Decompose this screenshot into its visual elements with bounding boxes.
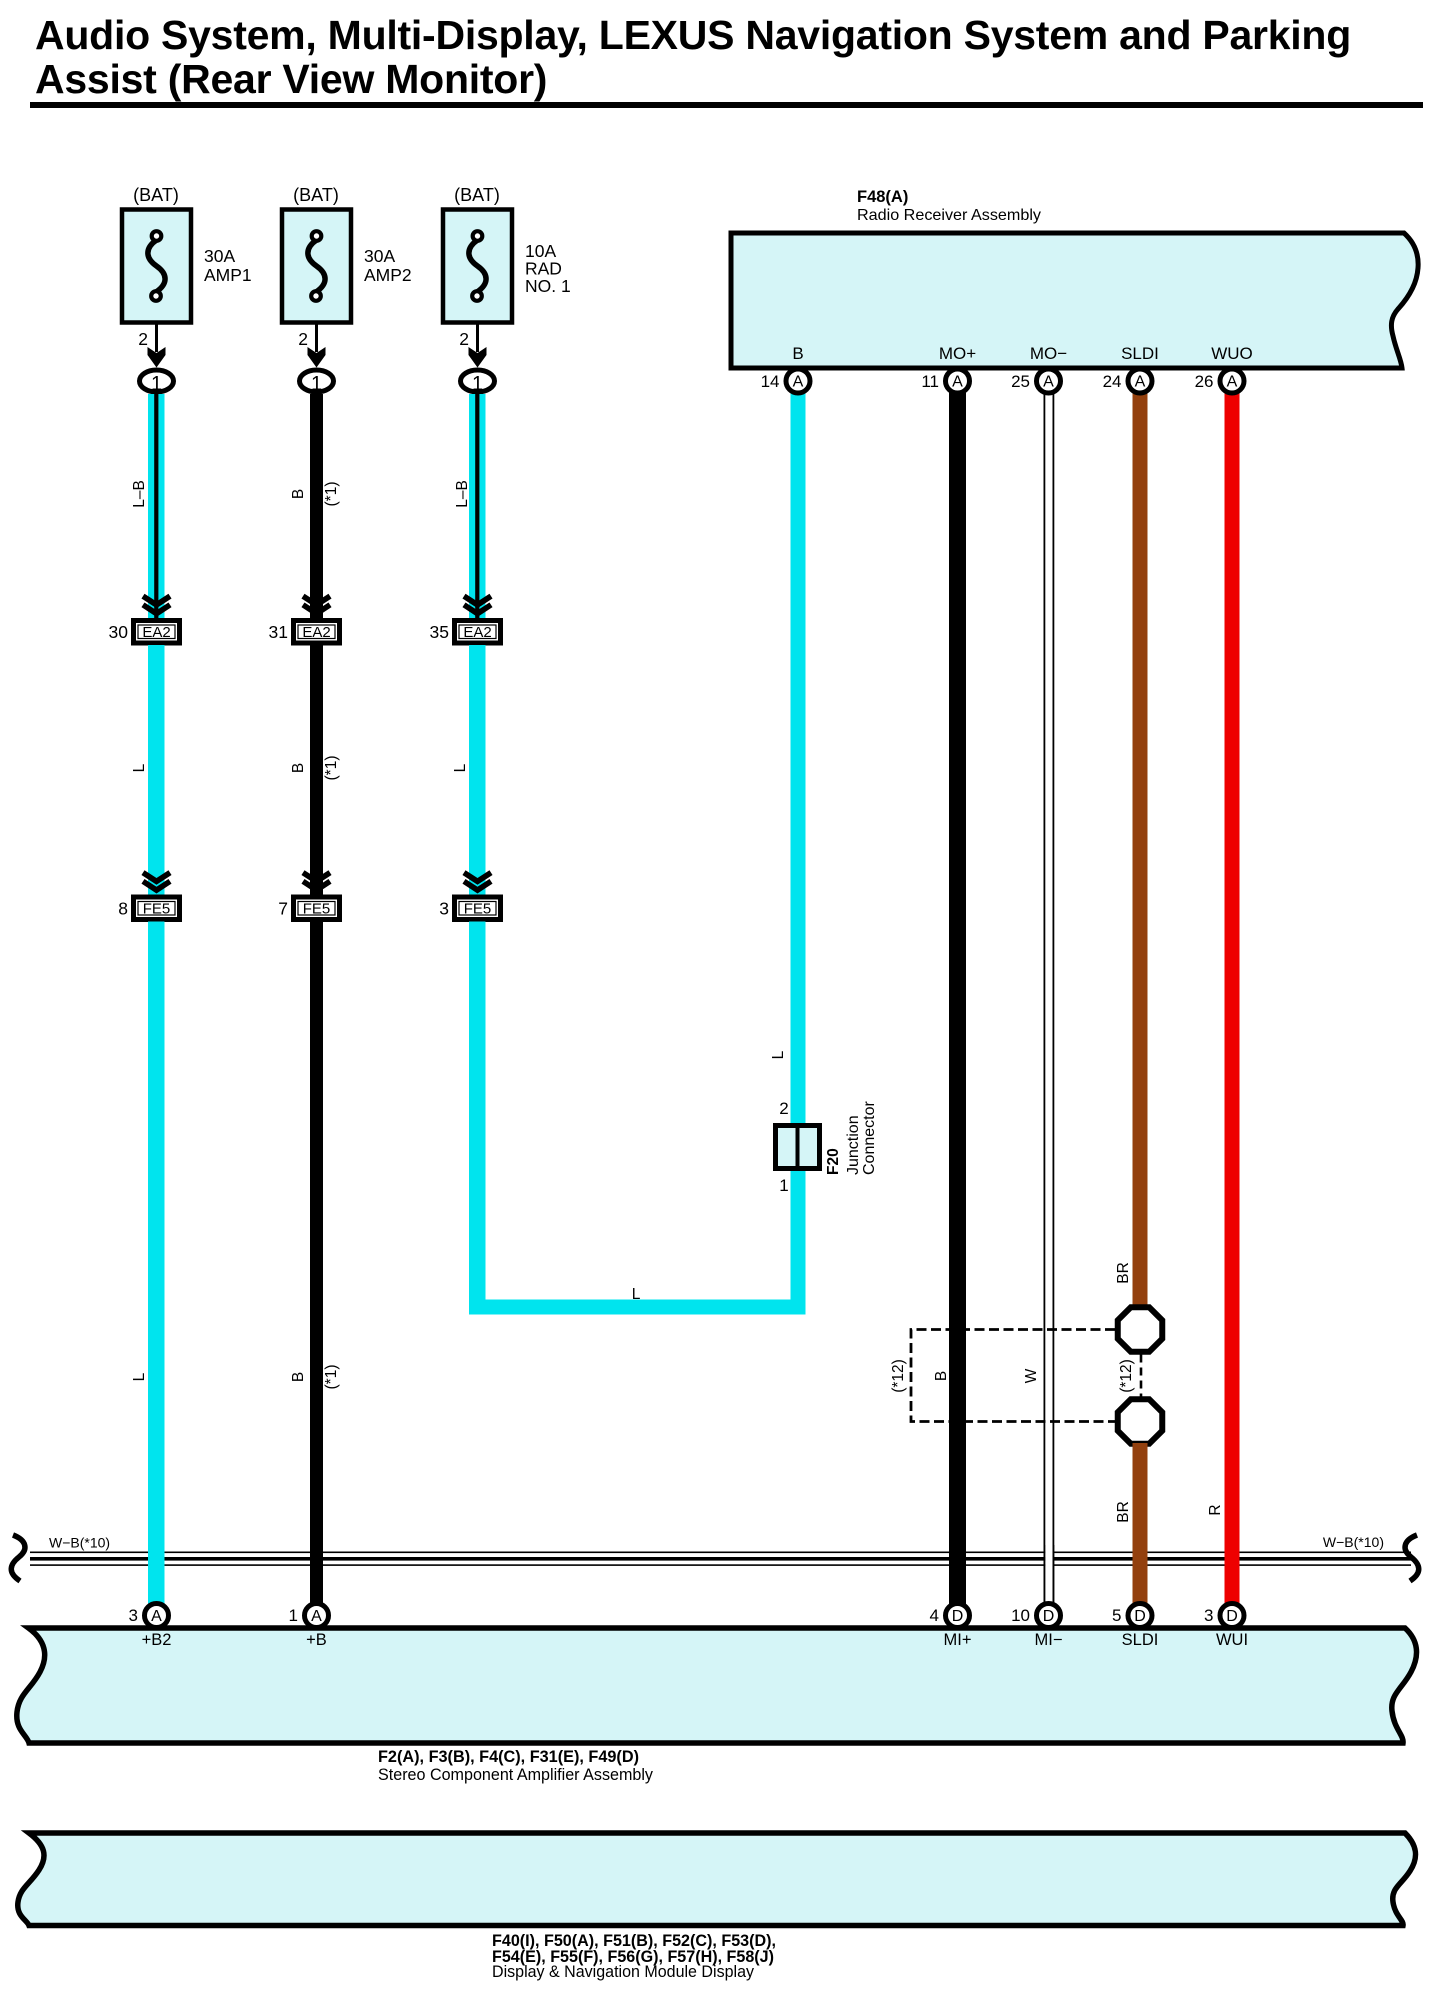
svg-text:(*1): (*1) [323, 482, 340, 507]
amplifier pin circle 10 D (MI-) [1037, 1604, 1061, 1628]
svg-text:Display & Navigation Module Di: Display & Navigation Module Display [492, 1963, 755, 1981]
svg-text:(*1): (*1) [323, 756, 340, 781]
radio receiver assembly F48(A) box [731, 233, 1418, 368]
svg-text:A: A [1135, 374, 1146, 391]
svg-text:4: 4 [930, 1606, 939, 1625]
svg-text:30A: 30A [204, 246, 235, 266]
svg-text:2: 2 [459, 329, 469, 349]
svg-text:25: 25 [1011, 372, 1030, 391]
svg-text:14: 14 [761, 372, 780, 391]
junction connector F20 [776, 1126, 820, 1169]
connector chevrons FE5 col1 [143, 873, 170, 882]
svg-text:D: D [952, 1608, 964, 1625]
svg-text:SLDI: SLDI [1121, 344, 1159, 363]
oval terminal 1 col3 [461, 370, 495, 392]
svg-text:1: 1 [289, 1606, 298, 1625]
wire L col1 crossing bus [148, 1545, 165, 1603]
title [35, 12, 1351, 102]
fuse AMP2 box [282, 210, 351, 323]
wire L from radio B down to elbow [791, 392, 806, 1315]
fuse RAD NO.1 symbol [469, 240, 486, 292]
svg-text:26: 26 [1195, 372, 1214, 391]
bus break squiggle left [11, 1535, 25, 1581]
svg-text:AMP1: AMP1 [204, 265, 252, 285]
svg-text:(BAT): (BAT) [293, 185, 339, 205]
svg-text:5: 5 [1112, 1606, 1121, 1625]
connector FE5 pin 8 [134, 897, 180, 920]
wire L col1 [148, 645, 165, 895]
svg-text:Audio System, Multi-Display, L: Audio System, Multi-Display, LEXUS Navig… [35, 12, 1351, 58]
svg-text:B: B [290, 763, 307, 773]
svg-text:Connector: Connector [861, 1101, 878, 1175]
display &amp; navigation module display box [18, 1833, 1416, 1926]
svg-text:L–B: L–B [131, 480, 148, 508]
svg-text:A: A [1043, 374, 1054, 391]
svg-text:2: 2 [138, 329, 148, 349]
svg-text:(BAT): (BAT) [133, 185, 179, 205]
shield octagon upper [1118, 1307, 1163, 1352]
wire B col2 crossing bus [310, 1545, 323, 1603]
svg-text:SLDI: SLDI [1122, 1631, 1159, 1649]
svg-text:MO+: MO+ [939, 344, 976, 363]
svg-text:MI+: MI+ [944, 1631, 972, 1649]
svg-text:R: R [1207, 1504, 1224, 1515]
wire B col2 to amplifier [310, 922, 323, 1604]
wire B col2 [310, 394, 323, 618]
fuse AMP1 box [122, 210, 191, 323]
wire R WUI crossing bus [1225, 1545, 1240, 1603]
svg-text:(*1): (*1) [323, 1365, 340, 1390]
svg-text:EA2: EA2 [463, 624, 491, 641]
svg-text:+B: +B [306, 1631, 327, 1649]
svg-text:10: 10 [1011, 1606, 1030, 1625]
wire L col3 mid [469, 645, 486, 895]
svg-text:3: 3 [129, 1606, 138, 1625]
svg-text:FE5: FE5 [464, 901, 492, 918]
svg-text:F2(A), F3(B), F4(C), F31(E), F: F2(A), F3(B), F4(C), F31(E), F49(D) [378, 1747, 639, 1766]
connector FE5 pin 7 [294, 897, 340, 920]
radio pin circle 11 A (MO+) [946, 369, 970, 393]
svg-text:1: 1 [151, 373, 162, 395]
svg-text:3: 3 [1204, 1606, 1213, 1625]
connector EA2 pin 35 [455, 621, 501, 644]
wire BR radio SLDI upper [1133, 392, 1148, 1306]
svg-text:2: 2 [779, 1099, 788, 1118]
svg-text:B: B [290, 489, 307, 499]
wire B col2 mid [310, 645, 323, 895]
radio pin circle 14 A (B) [786, 369, 810, 393]
fuse RAD NO.1 box [443, 210, 512, 323]
svg-text:(*12): (*12) [1118, 1359, 1135, 1393]
svg-text:F20: F20 [825, 1148, 842, 1175]
radio pin circle 26 A (WUO) [1220, 369, 1244, 393]
wire L-B col3 [469, 394, 486, 618]
svg-text:Stereo Component Amplifier Ass: Stereo Component Amplifier Assembly [378, 1766, 654, 1784]
ground bus W-B(*10) [30, 1552, 1411, 1554]
terminal arrow col1 [148, 347, 166, 368]
svg-text:NO. 1: NO. 1 [525, 276, 571, 296]
svg-text:Junction: Junction [845, 1115, 862, 1175]
bus break squiggle right [1405, 1535, 1419, 1581]
svg-text:1: 1 [779, 1176, 788, 1195]
svg-text:W: W [1023, 1368, 1040, 1383]
amplifier pin circle 1 A (+B) [305, 1604, 329, 1628]
svg-text:W−B(*10): W−B(*10) [1323, 1534, 1384, 1550]
svg-text:2: 2 [298, 329, 308, 349]
wire B radio MO+ to amplifier MI+ [949, 392, 966, 1604]
terminal arrow col2 [308, 347, 326, 368]
svg-text:A: A [952, 374, 963, 391]
shield dashed link (*12) [1140, 1355, 1143, 1397]
svg-text:B: B [933, 1371, 950, 1381]
svg-text:Radio Receiver Assembly: Radio Receiver Assembly [857, 207, 1041, 224]
title rule [30, 102, 1423, 108]
connector FE5 pin 3 [455, 897, 501, 920]
fuse AMP2 symbol [308, 240, 325, 292]
connector chevrons FE5 col3 [464, 873, 491, 882]
svg-text:MI−: MI− [1035, 1631, 1063, 1649]
svg-text:W−B(*10): W−B(*10) [49, 1535, 110, 1551]
radio pin circle 24 A (SLDI) [1128, 369, 1152, 393]
svg-text:L: L [452, 763, 469, 772]
svg-text:(*12): (*12) [890, 1359, 907, 1393]
amplifier pin circle 4 D (MI+) [946, 1604, 970, 1628]
svg-text:A: A [311, 1608, 322, 1625]
svg-text:EA2: EA2 [302, 624, 330, 641]
svg-text:BR: BR [1115, 1262, 1132, 1284]
terminal arrow col3 [469, 347, 487, 368]
svg-text:D: D [1134, 1608, 1146, 1625]
svg-text:L: L [131, 1372, 148, 1381]
wire W radio MO- to amplifier MI- (white wire) [1044, 392, 1046, 1604]
svg-text:EA2: EA2 [142, 624, 170, 641]
dashed shield box [911, 1330, 1115, 1422]
svg-text:30: 30 [109, 622, 129, 642]
wire L col3 elbow to radio B [469, 922, 486, 1315]
svg-text:FE5: FE5 [143, 901, 171, 918]
svg-text:L: L [131, 763, 148, 772]
svg-text:(BAT): (BAT) [454, 185, 500, 205]
wire R radio WUO [1225, 392, 1240, 1604]
svg-text:L: L [770, 1050, 787, 1059]
svg-text:35: 35 [430, 622, 449, 642]
svg-text:1: 1 [311, 373, 322, 395]
svg-text:WUI: WUI [1216, 1631, 1248, 1649]
svg-text:FE5: FE5 [303, 901, 331, 918]
svg-text:7: 7 [278, 899, 288, 919]
radio pin circle 25 A (MO-) [1037, 369, 1061, 393]
wire BR SLDI crossing bus [1133, 1545, 1148, 1603]
svg-text:WUO: WUO [1211, 344, 1253, 363]
svg-text:L–B: L–B [454, 480, 471, 508]
fuse AMP1 symbol [148, 240, 165, 292]
svg-text:B: B [792, 344, 803, 363]
amplifier pin circle 3 A (+B2) [145, 1604, 169, 1628]
wire BR radio SLDI lower [1133, 1443, 1148, 1604]
connector EA2 pin 31 [294, 621, 340, 644]
connector chevrons EA2 col1 [143, 596, 170, 605]
svg-text:3: 3 [439, 899, 449, 919]
amplifier pin circle 3 D (WUI) [1220, 1604, 1244, 1628]
wire B MI+ crossing bus [949, 1545, 966, 1603]
svg-text:30A: 30A [364, 246, 395, 266]
amplifier pin circle 5 D (SLDI) [1128, 1604, 1152, 1628]
wire L-B col1 [148, 394, 165, 618]
svg-text:A: A [151, 1608, 162, 1625]
svg-text:A: A [793, 374, 804, 391]
svg-text:D: D [1226, 1608, 1238, 1625]
svg-text:24: 24 [1103, 372, 1122, 391]
oval terminal 1 col1 [140, 370, 174, 392]
svg-text:1: 1 [472, 373, 483, 395]
svg-text:D: D [1043, 1608, 1055, 1625]
wire W MI- crossing bus [1044, 1545, 1055, 1603]
wire L col1 to amplifier [148, 922, 165, 1604]
svg-text:31: 31 [269, 622, 288, 642]
svg-text:BR: BR [1115, 1501, 1132, 1523]
connector EA2 pin 30 [134, 621, 180, 644]
stereo component amplifier assembly box [17, 1628, 1417, 1743]
svg-text:L: L [632, 1286, 641, 1303]
connector chevrons EA2 col3 [464, 596, 491, 605]
oval terminal 1 col2 [300, 370, 334, 392]
svg-text:F48(A): F48(A) [857, 188, 908, 206]
svg-text:MO−: MO− [1030, 344, 1067, 363]
svg-text:Assist (Rear View Monitor): Assist (Rear View Monitor) [35, 56, 547, 102]
shield octagon lower [1118, 1399, 1163, 1444]
svg-text:8: 8 [118, 899, 128, 919]
svg-text:B: B [290, 1372, 307, 1382]
svg-text:11: 11 [921, 372, 939, 391]
connector chevrons FE5 col2 [303, 873, 330, 882]
svg-text:A: A [1227, 374, 1238, 391]
connector chevrons EA2 col2 [303, 596, 330, 605]
svg-text:+B2: +B2 [142, 1631, 172, 1649]
svg-text:AMP2: AMP2 [364, 265, 412, 285]
